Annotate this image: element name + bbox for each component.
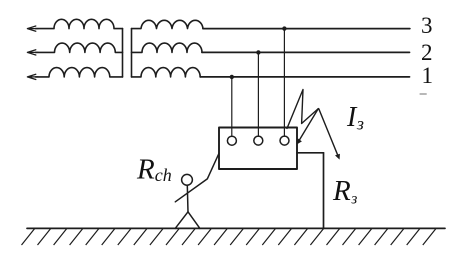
svg-text:1: 1 [422, 63, 434, 88]
winding W5 secondary phase 2 [132, 43, 203, 52]
fault current arrowhead [335, 154, 340, 160]
svg-text:3: 3 [421, 13, 433, 38]
fault arrow to box [299, 109, 319, 142]
person body [186, 185, 189, 212]
junction on line 2 [256, 50, 260, 54]
terminal 3 [280, 136, 289, 145]
wire phase line 3 [203, 28, 410, 30]
fault arrowhead at box [297, 138, 302, 144]
svg-text:Rch: Rch [136, 154, 172, 186]
wire phase line 2 [202, 51, 410, 53]
person arms touching box [175, 154, 219, 202]
arrow to load phase C [27, 74, 38, 79]
ground surface line [27, 227, 445, 229]
terminal 1 [227, 136, 236, 145]
svg-text:Iз: Iз [346, 102, 364, 134]
winding W1 primary phase A [36, 19, 123, 28]
person head [182, 174, 193, 185]
person legs [175, 212, 200, 229]
winding W2 primary phase B [36, 43, 123, 52]
dash under label 1 [420, 93, 427, 95]
junction on line 3 [282, 26, 286, 30]
fault lightning zigzag [287, 90, 318, 129]
wire drop from line 1 to terminal [231, 77, 233, 136]
wire drop from line 2 to terminal [257, 52, 259, 136]
ground hatching [22, 229, 436, 245]
junction on line 1 [230, 75, 234, 79]
svg-text:2: 2 [421, 40, 433, 65]
grounding conductor Rz [323, 153, 325, 229]
wire secondary bus [131, 29, 133, 77]
wire drop from line 3 to terminal [283, 29, 285, 137]
arrow to load phase B [27, 50, 38, 55]
terminal 2 [254, 136, 263, 145]
svg-text:Rз: Rз [332, 175, 357, 208]
wire box to grounding conductor [297, 152, 324, 154]
winding W6 secondary phase 1 [132, 68, 201, 77]
equipment box [219, 128, 297, 170]
fault current arrow Iz [319, 109, 338, 157]
wire primary bus [122, 29, 124, 77]
wire phase line 1 [200, 76, 409, 78]
winding W4 secondary phase 3 [132, 20, 204, 28]
arrow to load phase A [27, 26, 38, 31]
winding W3 primary phase C [36, 68, 123, 77]
